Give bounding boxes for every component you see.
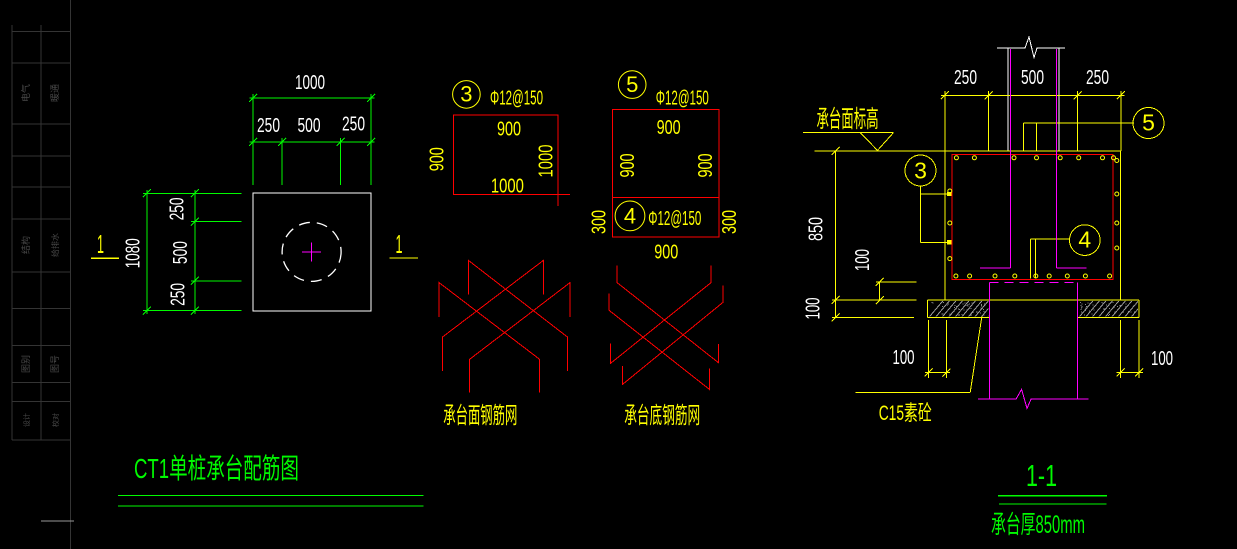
svg-text:900: 900 — [654, 242, 678, 264]
svg-text:3: 3 — [914, 158, 927, 184]
svg-text:C15素砼: C15素砼 — [879, 402, 932, 425]
svg-text:1000: 1000 — [491, 176, 524, 198]
svg-text:3: 3 — [460, 82, 472, 107]
svg-text:100: 100 — [803, 298, 825, 320]
svg-text:250: 250 — [167, 197, 189, 220]
svg-text:300: 300 — [719, 210, 741, 234]
svg-text:250: 250 — [954, 67, 977, 89]
svg-text:承台底钢筋网: 承台底钢筋网 — [624, 402, 700, 428]
svg-text:4: 4 — [1078, 227, 1091, 253]
svg-text:1080: 1080 — [122, 238, 144, 268]
svg-text:1000: 1000 — [295, 72, 325, 94]
svg-text:Φ12@150: Φ12@150 — [648, 208, 701, 230]
svg-text:1: 1 — [97, 229, 104, 259]
svg-text:给排水: 给排水 — [50, 233, 60, 257]
svg-text:900: 900 — [426, 147, 448, 171]
svg-text:电气: 电气 — [20, 84, 31, 102]
svg-text:Φ12@150: Φ12@150 — [656, 87, 709, 109]
svg-text:1: 1 — [396, 229, 403, 259]
svg-text:设计: 设计 — [22, 413, 31, 427]
svg-text:850: 850 — [806, 217, 828, 241]
svg-text:承台面钢筋网: 承台面钢筋网 — [443, 402, 517, 428]
svg-text:承台面标高: 承台面标高 — [817, 106, 879, 133]
svg-text:4: 4 — [624, 203, 636, 228]
svg-text:500: 500 — [298, 115, 321, 137]
svg-text:250: 250 — [1086, 67, 1109, 89]
svg-text:暖通: 暖通 — [49, 84, 60, 102]
svg-text:100: 100 — [1151, 348, 1173, 370]
svg-text:250: 250 — [168, 283, 190, 306]
svg-text:250: 250 — [257, 115, 280, 137]
svg-text:承台厚850mm: 承台厚850mm — [991, 511, 1085, 539]
svg-text:Φ12@150: Φ12@150 — [490, 87, 543, 109]
svg-text:校对: 校对 — [51, 413, 60, 427]
svg-text:500: 500 — [170, 241, 192, 264]
svg-text:100: 100 — [893, 347, 915, 369]
svg-text:图号: 图号 — [50, 355, 60, 373]
svg-text:900: 900 — [657, 117, 681, 139]
svg-text:CT1单桩承台配筋图: CT1单桩承台配筋图 — [134, 453, 299, 484]
svg-text:5: 5 — [626, 72, 638, 97]
svg-text:250: 250 — [342, 113, 365, 135]
svg-text:5: 5 — [1142, 110, 1155, 136]
svg-text:结构: 结构 — [20, 236, 31, 254]
svg-text:1000: 1000 — [536, 145, 558, 178]
svg-text:900: 900 — [617, 154, 639, 178]
svg-text:900: 900 — [695, 154, 717, 178]
svg-text:图别: 图别 — [21, 355, 31, 373]
svg-text:100: 100 — [852, 249, 874, 271]
svg-text:500: 500 — [1021, 67, 1044, 89]
svg-text:300: 300 — [588, 210, 610, 234]
svg-text:900: 900 — [497, 118, 521, 140]
svg-text:1-1: 1-1 — [1026, 458, 1057, 493]
